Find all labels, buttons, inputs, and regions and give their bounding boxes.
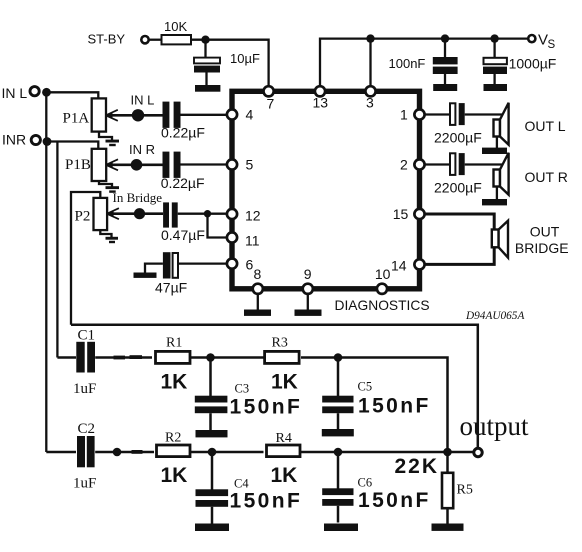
wire VS rail (320, 39, 528, 87)
wire wiper P2 to 0.47uF (109, 212, 163, 215)
capacitor 1000uF (483, 39, 507, 84)
wire C1 feed corner (57, 356, 76, 359)
svg-text:2200µF: 2200µF (434, 180, 482, 196)
svg-text:0.22µF: 0.22µF (161, 175, 205, 191)
capacitor 10uF (194, 40, 220, 85)
wire 10K to pin 7 drop (191, 40, 269, 87)
junction dash after C2 (132, 450, 143, 454)
svg-text:22K: 22K (395, 455, 440, 478)
node junction R1/C3 (206, 353, 215, 362)
svg-text:12: 12 (245, 208, 261, 224)
ground P1A (99, 132, 119, 147)
capacitor C3 (195, 358, 228, 431)
capacitor 2200uF upper (450, 103, 465, 125)
wire output top rail (71, 325, 478, 448)
node dot IN L inner (132, 109, 144, 121)
node junction above 100nF (441, 34, 449, 42)
svg-text:1uF: 1uF (73, 476, 96, 492)
ground C6 (324, 524, 358, 532)
wire wiper P1A to pin 4 (108, 114, 163, 117)
node junction R3/C5 (334, 353, 343, 362)
wire C2 feed corner (46, 451, 76, 454)
terminal VS (528, 35, 535, 42)
svg-text:OUT: OUT (530, 224, 560, 240)
ground C4 (195, 524, 229, 532)
svg-text:C4: C4 (234, 477, 249, 491)
node dot P2 (134, 208, 145, 219)
pin 11 (227, 232, 237, 242)
terminal INR (31, 135, 40, 144)
svg-text:P1A: P1A (63, 110, 90, 126)
wire junction to pin 11 (208, 214, 227, 238)
wire pin 3 riser (369, 39, 371, 87)
potentiometer P1A (92, 98, 118, 131)
speaker OUT L (482, 103, 509, 154)
svg-text:2200µF: 2200µF (434, 130, 482, 146)
svg-text:15: 15 (393, 206, 409, 222)
pin 9 (303, 284, 313, 294)
svg-text:1K: 1K (161, 371, 188, 394)
svg-text:R5: R5 (457, 483, 473, 498)
svg-text:7: 7 (267, 96, 275, 112)
wire pin 1 to 2200uF (425, 113, 450, 115)
svg-text:In Bridge: In Bridge (113, 190, 163, 205)
svg-text:DIAGNOSTICS: DIAGNOSTICS (335, 298, 430, 313)
resistor R3 (265, 351, 300, 363)
node dot IN L (42, 88, 51, 97)
svg-text:1K: 1K (161, 464, 188, 487)
svg-text:0.22µF: 0.22µF (161, 125, 205, 141)
svg-text:OUT R: OUT R (525, 169, 568, 185)
wire R2 to R4 (191, 451, 264, 454)
ground C3 (196, 430, 228, 437)
wire wiper P1B to pin 5 (108, 163, 163, 166)
wire C2 to R2 (95, 451, 154, 454)
svg-text:R4: R4 (276, 431, 292, 446)
wire pin 15 to bridge speaker (425, 214, 495, 230)
capacitor C6 (322, 452, 353, 523)
ground below 1000uF (484, 84, 508, 91)
resistor R2 (157, 445, 191, 457)
wire IN L to P1A top (47, 92, 99, 99)
resistor R4 (267, 445, 301, 457)
pin 6 (227, 259, 237, 269)
pin 5 (227, 159, 237, 169)
IC body (232, 91, 420, 288)
svg-text:1000µF: 1000µF (509, 55, 557, 71)
wire R3 to output column (301, 358, 448, 453)
node junction at 10K / 10uF (201, 36, 209, 44)
node junction R5/output (443, 448, 452, 457)
svg-text:150nF: 150nF (358, 395, 431, 418)
svg-text:P2: P2 (75, 209, 91, 225)
svg-text:S: S (548, 39, 556, 51)
ground below 100nF (433, 84, 457, 91)
capacitor 2200uF lower (450, 153, 465, 175)
svg-text:R1: R1 (166, 336, 182, 351)
ground P1B (99, 181, 119, 193)
node dot IN R inner (131, 159, 143, 171)
ground C5 (322, 429, 354, 436)
svg-text:ST-BY: ST-BY (88, 32, 126, 47)
capacitor 100nF (433, 39, 458, 84)
svg-text:150nF: 150nF (358, 489, 431, 512)
capacitor 47uF (163, 252, 178, 278)
terminal IN L (30, 87, 39, 96)
pin 15 (414, 209, 424, 219)
node dot INR (43, 137, 52, 146)
pin 3 (365, 86, 375, 96)
svg-text:1uF: 1uF (73, 381, 96, 397)
svg-text:R3: R3 (272, 336, 288, 351)
svg-text:11: 11 (245, 233, 260, 249)
node junction pins 12/11 (204, 210, 211, 217)
ground pin 9 (295, 294, 322, 316)
svg-text:4: 4 (246, 107, 254, 123)
pin 10 (377, 284, 387, 294)
svg-text:100nF: 100nF (389, 56, 426, 71)
ground below 10uF (195, 85, 220, 92)
pin 13 (315, 86, 325, 96)
resistor R5 (446, 452, 449, 473)
capacitor 0.22uF upper (163, 102, 181, 128)
svg-text:C1: C1 (78, 328, 96, 344)
svg-text:10: 10 (375, 266, 391, 282)
svg-text:9: 9 (304, 266, 312, 282)
svg-text:BRIDGE: BRIDGE (515, 240, 569, 256)
resistor 10K (162, 35, 192, 44)
capacitor 0.47uF (163, 202, 178, 227)
wire 0.22uF to pin 5 (181, 163, 227, 165)
ground P2 (100, 230, 118, 243)
potentiometer P2 (94, 198, 119, 230)
ground pin 8 (244, 294, 271, 316)
node dot after C2 (113, 448, 122, 457)
capacitor C5 (322, 358, 353, 430)
capacitor C1 (76, 342, 95, 373)
svg-text:8: 8 (254, 266, 262, 282)
wire R1 to R3 (190, 356, 264, 359)
pin 14 (414, 259, 424, 269)
wire 2200uF to speaker R (465, 163, 503, 165)
capacitor C4 (196, 452, 229, 524)
terminal ST-BY (141, 36, 148, 43)
svg-text:INR: INR (2, 132, 26, 148)
pin 1 (414, 109, 424, 119)
svg-text:0.47µF: 0.47µF (161, 227, 205, 243)
svg-text:V: V (538, 32, 548, 49)
svg-text:output: output (460, 411, 530, 441)
capacitor 0.22uF lower (163, 152, 181, 178)
junction dashes after C1 (114, 356, 126, 360)
svg-text:IN L: IN L (2, 85, 28, 101)
speaker OUT BRIDGE (492, 221, 508, 258)
svg-text:C6: C6 (358, 476, 373, 490)
svg-text:C3: C3 (235, 382, 250, 396)
svg-text:1K: 1K (271, 464, 298, 487)
svg-text:D94AU065A: D94AU065A (465, 310, 524, 322)
wire 47uF to pin 6 (178, 262, 227, 264)
wire pin 14 to bridge speaker (425, 247, 495, 264)
wire 0.47uF to pin 12 (178, 213, 227, 215)
speaker OUT R (482, 153, 509, 206)
svg-text:150nF: 150nF (230, 490, 303, 513)
svg-text:6: 6 (246, 257, 254, 273)
svg-text:C5: C5 (358, 380, 373, 394)
potentiometer P1B (92, 149, 118, 181)
node junction R4/C6 (334, 448, 343, 457)
svg-text:R2: R2 (165, 431, 181, 446)
pin 2 (414, 159, 424, 169)
resistor R1 (156, 351, 191, 363)
svg-text:47µF: 47µF (155, 280, 187, 296)
pin 7 (264, 86, 274, 96)
wire P2 feed from bottom network (71, 192, 100, 325)
pin 4 (227, 109, 237, 119)
svg-text:P1B: P1B (65, 157, 91, 173)
svg-text:OUT L: OUT L (525, 118, 566, 134)
node junction R2/C4 (208, 448, 217, 457)
node junction above 1000uF (490, 34, 498, 42)
wire 0.22uF to pin 4 (181, 114, 227, 116)
wire R4 to output (300, 451, 474, 454)
svg-text:5: 5 (246, 157, 254, 173)
wire ST-BY to R 10K (149, 39, 161, 41)
wire INR to P1B top (47, 142, 98, 150)
wire C1 to R1 (95, 356, 152, 359)
svg-text:10µF: 10µF (230, 51, 260, 66)
svg-text:IN R: IN R (129, 142, 155, 157)
svg-text:150nF: 150nF (230, 395, 303, 418)
pin 12 (227, 209, 237, 219)
wire R5 to ground (446, 508, 449, 524)
svg-text:C2: C2 (78, 421, 96, 437)
node junction above pin 3 (366, 34, 374, 42)
wire pin 2 to 2200uF (425, 163, 450, 165)
svg-text:14: 14 (391, 258, 407, 274)
capacitor C2 (77, 436, 95, 467)
wire INR vertical to C1 (56, 142, 58, 358)
ground R5 (432, 524, 464, 531)
svg-text:1: 1 (400, 107, 408, 123)
svg-text:2: 2 (400, 157, 408, 173)
wire 2200uF to speaker L (465, 113, 503, 115)
svg-text:13: 13 (313, 95, 329, 111)
ground 47uF (134, 264, 163, 278)
wire IN L vertical to C2 (45, 92, 47, 452)
svg-text:3: 3 (366, 95, 374, 111)
svg-text:10K: 10K (164, 19, 187, 34)
terminal output (474, 448, 482, 456)
svg-text:1K: 1K (271, 371, 298, 394)
svg-text:IN L: IN L (131, 93, 155, 108)
pin 8 (253, 284, 263, 294)
